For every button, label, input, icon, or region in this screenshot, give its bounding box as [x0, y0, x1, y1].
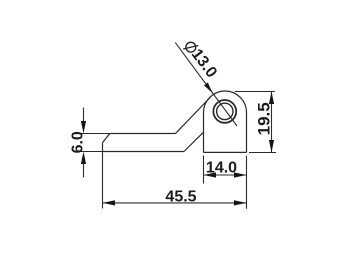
hole outer circle	[213, 100, 236, 123]
45.5 left arrowhead	[103, 200, 116, 205]
19.5 dimension line	[271, 92, 273, 153]
6.0 extension line bottom	[80, 151, 103, 153]
leader arrowhead at lobe	[204, 83, 213, 94]
bracket arm bottom edge	[103, 151, 185, 153]
diameter symbol slash	[183, 45, 198, 49]
bracket lower diagonal	[184, 132, 204, 151]
lobe left edge	[203, 113, 205, 153]
19.5 top arrowhead (pointing up)	[269, 92, 274, 105]
6.0 arrow tail lower	[83, 163, 85, 178]
lobe top arc	[204, 91, 247, 113]
svg-text:6.0: 6.0	[70, 131, 87, 153]
14.0 left arrowhead	[204, 172, 217, 177]
45.5 dimension line	[103, 202, 247, 204]
svg-text:19.5: 19.5	[255, 102, 274, 135]
6.0 extension line top	[80, 133, 110, 135]
lobe right edge	[246, 113, 248, 153]
svg-text:14.0: 14.0	[206, 160, 237, 177]
14.0 dimension line	[204, 174, 247, 176]
lobe bottom edge	[204, 151, 247, 153]
6.0 upper arrowhead (pointing down)	[81, 121, 86, 134]
bracket top-left chamfer	[103, 134, 110, 143]
14.0 / 45.5 shared extension line right	[246, 156, 248, 209]
14.0 extension line left	[203, 156, 205, 184]
19.5 extension line bottom	[249, 152, 276, 154]
19.5 bottom arrowhead (pointing down)	[269, 140, 274, 153]
45.5 extension line left	[102, 152, 104, 209]
bracket top edge	[110, 133, 176, 135]
6.0 arrow tail upper	[83, 108, 85, 123]
leader line for diameter 13.0	[175, 43, 237, 126]
bracket upper diagonal	[176, 98, 211, 134]
svg-text:45.5: 45.5	[165, 189, 196, 206]
19.5 extension line top	[235, 91, 275, 93]
diameter symbol circle	[186, 42, 196, 52]
45.5 right arrowhead	[234, 200, 247, 205]
bracket left face	[102, 143, 104, 152]
6.0 lower arrowhead (pointing up)	[81, 152, 86, 165]
hole inner circle	[217, 103, 233, 119]
14.0 right arrowhead	[234, 172, 247, 177]
